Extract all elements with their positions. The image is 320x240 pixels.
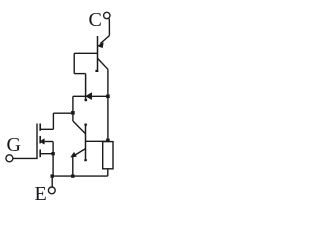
MOSFET source stub <box>40 153 53 155</box>
wire C lead vertical <box>108 19 110 36</box>
terminal E circle <box>48 187 55 194</box>
Q1 base wire <box>74 52 97 54</box>
Q3 emitter drop wire <box>72 156 74 176</box>
base loop left vertical <box>73 53 75 73</box>
terminal C circle <box>104 12 110 18</box>
node X vertical wire <box>72 96 74 121</box>
Q2 collector wire <box>73 95 86 97</box>
base loop bottom horizontal <box>74 73 85 75</box>
terminal G circle <box>6 155 13 162</box>
junction J6 (rail-NPN emitter) <box>71 174 74 177</box>
Q3 base wire <box>86 140 108 142</box>
junction J4 (source node) <box>51 152 54 155</box>
source riser <box>52 142 54 177</box>
Q3 bar top blob <box>84 124 87 126</box>
transistor Q3 (NPN) collector diagonal <box>73 121 86 134</box>
junction J2 (Q2 emitter node) <box>106 95 110 99</box>
MOSFET gate bar <box>13 124 37 159</box>
junction J5 (rail-E) <box>51 174 54 177</box>
MOSFET channel dash source <box>39 150 41 158</box>
label G <box>7 135 21 155</box>
MOSFET body arrowhead <box>40 139 44 144</box>
wire C lead diagonal (Q1 emitter) <box>100 36 109 44</box>
right column wire <box>107 69 109 141</box>
resistor bottom stub <box>107 169 109 176</box>
MOSFET channel dash drain <box>39 124 41 131</box>
Q3 base bar <box>85 124 87 161</box>
drain riser <box>52 113 54 129</box>
MOSFET channel dash body <box>39 136 41 144</box>
Q2 emitter wire <box>86 95 108 97</box>
junction J1 (node X) <box>71 111 75 115</box>
drain stub <box>40 128 53 130</box>
MOSFET body arrow stub <box>45 141 54 143</box>
Q1 collector diagonal <box>98 59 108 70</box>
label E <box>35 184 47 204</box>
junction J3 (resistor top) <box>106 139 110 143</box>
Q1 bar bottom blob <box>95 70 98 72</box>
Q1 emitter arrowhead <box>98 43 103 48</box>
drain wire horizontal <box>53 112 73 114</box>
E rail <box>52 175 108 177</box>
Q3 emitter arrowhead <box>71 153 76 157</box>
E drop wire <box>51 176 53 187</box>
transistor Q2 (PNP) base bar <box>85 74 87 101</box>
resistor R body <box>103 142 113 169</box>
Q2 bar bottom blob <box>85 99 88 101</box>
Q3 bar bottom blob <box>84 159 87 161</box>
label C <box>89 10 102 30</box>
transistor Q1 (PNP) base bar <box>97 36 99 72</box>
Q3 emitter diagonal <box>75 149 86 156</box>
Q2 emitter arrowhead <box>86 93 92 99</box>
